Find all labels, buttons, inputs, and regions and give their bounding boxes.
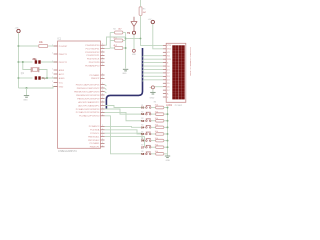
svg-text:GND: GND [59,86,64,88]
resistor R2 [115,31,123,34]
svg-text:2: 2 [102,87,103,89]
LCD1 pins [163,44,166,46]
svg-text:S8: S8 [141,151,143,153]
capacitor C2 22p [35,76,37,79]
switch S5 [146,133,148,135]
node junction xtal1 row [17,61,19,63]
svg-text:4k7: 4k7 [118,28,122,30]
svg-text:PD5/T1/P9: PD5/T1/P9 [89,62,100,64]
wire stack to T1 base [126,38,141,40]
wire T1 collector down [133,39,135,50]
wire buttons ground rail [167,108,169,156]
svg-text:2: 2 [102,54,103,56]
svg-text:2: 2 [102,83,103,85]
svg-text:1: 1 [52,73,53,75]
wire stub left of circle [150,86,152,88]
pin circle P3 [151,86,154,89]
switch S8 [146,153,148,155]
svg-text:IC1: IC1 [58,38,62,40]
wire R8 to rail [164,120,168,122]
wires IC to buttons staircase [105,106,145,108]
svg-text:PB3/MOSI/OC2A/PCINT3: PB3/MOSI/OC2A/PCINT3 [74,90,100,93]
ground GND4 [123,68,128,70]
svg-text:PB4/MISO/PCINT4/P18: PB4/MISO/PCINT4/P18 [76,95,100,97]
svg-text:PC2/ADC2/PCINT10: PC2/ADC2/PCINT10 [79,115,100,118]
bus entry wires to LCD D0-D7 [143,56,163,58]
transistor Q2 : none — main IC1 ATMEGA328P body [58,41,101,148]
svg-text:ADC6/PC6/AIN22/PC: ADC6/PC6/AIN22/PC [78,101,99,104]
resistor R7 [156,113,164,116]
svg-text:ATMEGA328P-PU: ATMEGA328P-PU [58,150,77,153]
wire R7 to rail [164,113,168,115]
switch S3 [146,120,148,122]
svg-text:2: 2 [102,132,103,134]
resistor R5 vertical on supply line [139,7,142,16]
wire R10 to rail [164,133,168,135]
wire VCC rail left vertical [18,33,20,88]
resistor R10 [156,133,164,136]
svg-text:10k: 10k [155,118,158,120]
wire R11 to rail [164,140,168,142]
svg-text:2: 2 [102,125,103,127]
node junction xtal2 row [17,77,19,79]
svg-text:10k: 10k [155,105,158,107]
svg-text:2: 2 [102,57,103,59]
wire +5V to LCD pin2 [153,24,163,49]
svg-text:PC6/RST: PC6/RST [59,46,68,48]
svg-text:22p: 22p [33,59,38,61]
svg-text:S7: S7 [141,145,143,147]
resistor R8 [156,119,164,122]
svg-text:R5: R5 [143,9,146,11]
svg-text:PC3/ADC3: PC3/ADC3 [89,125,100,128]
svg-text:S1: S1 [141,105,143,107]
svg-text:10k: 10k [39,42,44,44]
wire S4 to R9 [151,126,155,128]
svg-text:VO: VO [167,52,170,54]
wire gnd row to IC [19,87,58,89]
wire crystal left leg [23,62,31,70]
svg-text:1: 1 [52,81,53,83]
svg-text:GND: GND [23,99,28,101]
svg-text:10k: 10k [155,111,158,113]
svg-text:R6: R6 [154,101,156,103]
svg-text:1: 1 [52,45,53,47]
wire S6 to R11 [151,140,155,142]
svg-text:VSS: VSS [167,45,172,47]
svg-text:2: 2 [102,44,103,46]
svg-text:GND: GND [166,160,171,162]
svg-text:1: 1 [52,69,53,71]
svg-text:LCD1: LCD1 [166,105,173,107]
svg-text:2: 2 [102,139,103,141]
svg-text:PD4/T0/XCK: PD4/T0/XCK [87,59,100,61]
supply +5V symbol P1 [17,29,20,32]
resistor R11 [156,139,164,142]
svg-text:T1: T1 [127,33,130,35]
svg-text:2: 2 [102,74,103,76]
svg-text:S2: S2 [141,111,143,113]
resistor R1 10k [39,44,48,47]
bus entry wires from IC [105,85,107,87]
svg-text:2: 2 [102,108,103,110]
svg-text:PB0/ICP: PB0/ICP [91,78,100,80]
crystal Q1 [32,68,37,72]
svg-text:ADC7/PC7/AIN23/PC: ADC7/PC7/AIN23/PC [78,104,99,107]
svg-text:GND: GND [150,98,155,100]
resistor R12 [156,146,164,149]
svg-text:10k: 10k [155,151,158,153]
resistor R13 [156,153,164,156]
wire C2 to XTAL2 pin [41,77,58,79]
resistor R9 [156,126,164,129]
resistor R6 [156,106,164,109]
wire S2 to R7 [151,113,155,115]
svg-text:VDD: VDD [167,49,172,51]
svg-text:+5V: +5V [148,19,152,21]
wire IC pin PD0 up to stack [105,37,126,45]
svg-text:R2: R2 [113,28,116,30]
wire R12 to rail [164,146,168,148]
svg-text:10k: 10k [155,125,158,127]
switch S1 [146,107,148,109]
wire S8 to R13 [151,153,155,155]
wire to R1 [19,45,39,47]
wire supply to LCD pin1 [141,15,163,45]
transistor T1 [132,31,135,34]
svg-text:10k: 10k [155,138,158,140]
ground GND3 [165,155,170,157]
wire to ground [26,88,28,95]
LCD1 character grid [172,45,184,99]
svg-text:2: 2 [102,77,103,79]
wire R13 to rail [164,153,168,155]
LCD1 display body [166,43,186,102]
wire resistor stack right rail [125,33,127,69]
svg-text:S4: S4 [141,125,143,127]
wire C1 to XTAL1 pin [41,61,58,63]
svg-text:10k: 10k [155,131,158,133]
svg-text:PB1/OC1A/PCINT1/P15: PB1/OC1A/PCINT1/P15 [76,83,100,86]
resistor R4 [115,47,123,50]
wire to C1 [19,61,33,63]
svg-text:PD6/AIN0/P10: PD6/AIN0/P10 [85,64,100,67]
svg-text:2: 2 [102,47,103,49]
wire to ground [152,89,154,92]
wire R6 to rail [164,107,168,109]
wire S5 to R10 [151,133,155,135]
svg-text:PC1602: PC1602 [175,105,183,107]
svg-text:2: 2 [102,61,103,63]
svg-text:PC1/ADC1/PCINT9/P24: PC1/ADC1/PCINT9/P24 [76,111,100,114]
svg-text:AREF: AREF [59,69,65,72]
svg-text:2: 2 [102,97,103,99]
svg-text:AVCC: AVCC [59,73,65,76]
pin circle terminal below T1 [132,49,135,52]
node junction T1 base [140,38,142,40]
capacitor C1 22p [35,60,37,63]
wire to C2 [19,77,33,79]
svg-text:PD0/RXD/P30: PD0/RXD/P30 [85,45,100,47]
supply +5V symbol P2 [151,20,154,23]
svg-text:PC0/ADC0/PCINT8/P23: PC0/ADC0/PCINT8/P23 [76,108,100,111]
svg-text:PB5/SCK/PCINT5/P19: PB5/SCK/PCINT5/P19 [77,98,100,100]
svg-text:+5V: +5V [15,28,19,30]
svg-text:2: 2 [102,51,103,53]
switch S4 [146,127,148,129]
svg-text:2: 2 [102,142,103,144]
svg-text:2: 2 [102,104,103,106]
svg-text:AGND: AGND [59,77,65,80]
svg-text:2: 2 [102,114,103,116]
svg-text:1: 1 [52,77,53,79]
switch S6 [146,140,148,142]
svg-text:10k: 10k [155,144,158,146]
resistor R3 [115,39,123,42]
svg-text:VCC: VCC [59,82,64,84]
svg-text:2: 2 [102,90,103,92]
wire IC pin PD1 to stack [105,48,111,50]
svg-text:S6: S6 [141,138,143,140]
svg-text:PD3/INT1/P1: PD3/INT1/P1 [87,55,101,57]
IC1 left pins [54,45,58,47]
wire resistor stack left rail [109,33,111,49]
node junction gnd drop [25,87,27,89]
svg-text:PC4/SDA: PC4/SDA [90,129,100,132]
svg-text:PD7/AIN1: PD7/AIN1 [90,142,101,145]
svg-text:2: 2 [102,101,103,103]
wire R3 right [123,40,126,42]
wire R2 right [123,32,126,34]
svg-text:2: 2 [102,64,103,66]
svg-text:2: 2 [102,135,103,137]
IC1 right pins [101,44,105,46]
svg-text:1: 1 [52,53,53,55]
svg-text:PD1/TXD/P31: PD1/TXD/P31 [86,48,101,50]
svg-text:PD2/INT0/P32: PD2/INT0/P32 [85,52,100,54]
bus LCD data [106,48,142,109]
svg-text:PB6/XT1: PB6/XT1 [59,54,68,56]
svg-text:PD7/AIN1: PD7/AIN1 [90,74,101,77]
svg-text:S3: S3 [141,118,143,120]
svg-text:PB7/XTAL2: PB7/XTAL2 [88,139,100,142]
wire crystal right leg [39,70,47,79]
switch S7 [146,146,148,148]
wire R1 to RESET pin [48,45,57,47]
node K wire [155,86,163,88]
svg-text:22p: 22p [42,78,47,80]
svg-text:PB7/XT2: PB7/XT2 [59,62,68,64]
svg-text:GND: GND [122,73,127,75]
wire S1 to R6 [151,107,155,109]
svg-text:1: 1 [52,85,53,87]
wire S7 to R12 [151,146,155,148]
svg-text:2: 2 [102,111,103,113]
svg-text:2: 2 [102,145,103,147]
wire supply top [140,0,142,7]
svg-text:GND: GND [132,54,137,56]
ground GND1 [24,95,29,97]
svg-text:PB0/ICP1: PB0/ICP1 [90,147,100,149]
svg-text:Q1: Q1 [21,73,25,75]
svg-text:PC5/SCL: PC5/SCL [90,133,100,135]
svg-text:4k7: 4k7 [143,12,147,14]
svg-text:PC1602D POWERTIP 16X2: PC1602D POWERTIP 16X2 [189,47,191,76]
svg-text:2: 2 [102,94,103,96]
wire R9 to rail [164,126,168,128]
svg-text:2: 2 [102,128,103,130]
svg-text:PB2/SS/OC1B/PCINT2: PB2/SS/OC1B/PCINT2 [77,88,100,90]
svg-text:1: 1 [52,61,53,63]
wire R4 right [123,47,126,49]
wire S3 to R8 [151,120,155,122]
svg-text:R/W: R/W [167,59,171,61]
node junction reset row [17,45,19,47]
switch S2 [146,113,148,115]
ground GND2 [150,91,155,93]
node junction rail [125,47,127,49]
node junction rail base [125,38,127,40]
svg-text:PB6/XTAL1: PB6/XTAL1 [88,135,100,138]
svg-text:S5: S5 [141,131,143,133]
